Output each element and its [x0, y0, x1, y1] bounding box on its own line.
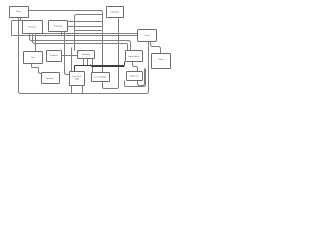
wire B9 bottom step to B14 top	[132, 62, 137, 72]
svg-text:Env: Env	[31, 57, 34, 59]
wire B6 bottom staircase into B11 left	[31, 64, 41, 74]
wire B2 tick3 down into B6 top	[35, 34, 37, 52]
box B5 cache	[138, 30, 157, 42]
wire x74.5 junction right to B5 left at y30.2	[75, 30, 102, 32]
wire B5 bottom dogleg into B10 top	[151, 42, 161, 54]
wire B1 bottom-left long edge via bottom line up to B5 bottom	[18, 18, 148, 94]
wire dark bus lower to B9	[91, 65, 125, 67]
wire B8 bottom tick1 to bus	[83, 59, 85, 66]
svg-text:Products: Products	[50, 54, 58, 57]
wire B2 left detour down to y35.4 bus	[11, 20, 22, 35]
wire B2 tick2 right along y43 down into B9 top	[33, 34, 128, 51]
wire dark bus upper from B12 top up to B9 bottom-left	[74, 62, 124, 73]
svg-text:Graph Lab: Graph Lab	[129, 75, 139, 77]
wire B7 right to B8 left	[62, 55, 78, 57]
box B4 backend	[107, 7, 124, 18]
box B8 numbers	[78, 51, 95, 59]
box B6 api	[24, 52, 43, 64]
wire B12 bottom riser right to bottom line	[82, 86, 84, 94]
svg-text:Cache: Cache	[144, 35, 151, 37]
wire B1 bottom to B2 top	[20, 18, 22, 21]
wire B3 right to x102 at y22.8	[68, 21, 103, 23]
box B7 products	[47, 51, 62, 62]
wire B4 bottom down and around to B13 bottom	[102, 18, 118, 89]
wire B2 right edge to B5 left at y33.2	[43, 33, 138, 35]
box B2 frontend	[23, 21, 43, 34]
wire B14 left to B10 bottom outer	[125, 69, 146, 87]
box B10 web app	[152, 54, 171, 69]
wire riser from connector level down to B12 top	[71, 48, 73, 73]
svg-text:Frontend: Frontend	[28, 26, 36, 29]
box B1 client	[10, 7, 29, 18]
svg-text:Gateway: Gateway	[54, 25, 62, 28]
wire long y35.4 from x11 to B5 left	[12, 35, 138, 37]
svg-text:Backend: Backend	[111, 12, 119, 14]
wire B3 bottom tick to y35.4	[61, 32, 63, 36]
box B11 amazon	[42, 73, 60, 84]
svg-text:Client: Client	[16, 10, 22, 13]
svg-text:Cache Stack: Cache Stack	[128, 55, 139, 58]
wire B12 bottom riser left to bottom line	[71, 86, 73, 94]
svg-text:Numbers: Numbers	[82, 54, 90, 56]
box B14 graph lab	[127, 72, 143, 81]
box B13 local storage	[92, 73, 110, 82]
box B3 gateway	[49, 21, 68, 32]
svg-text:SMB: SMB	[75, 79, 80, 81]
wire B8 bottom tick2 to bus	[87, 59, 89, 66]
wire B1 right edge to x102 down to B13 top	[29, 11, 103, 73]
box B9 cache stack	[126, 51, 143, 62]
svg-text:Whse: Whse	[158, 59, 164, 61]
wire B8 top up then right joining x102	[75, 15, 103, 51]
wire B3 right to x102 at y26.5	[68, 26, 103, 28]
wire B2 tick1 right along y40.8 down into B9 top	[30, 34, 131, 51]
wire B8 bottom tick3 through bus to B13 top	[92, 59, 94, 73]
svg-text:local storage: local storage	[95, 75, 107, 78]
box B12 low path	[70, 72, 85, 86]
svg-text:Low Path: Low Path	[73, 75, 81, 78]
wire B14 bottom to B10 bottom inner	[138, 69, 145, 86]
svg-text:Amazon: Amazon	[46, 77, 53, 80]
wire B3 bottom down right of B7 into B12 left	[64, 32, 69, 75]
